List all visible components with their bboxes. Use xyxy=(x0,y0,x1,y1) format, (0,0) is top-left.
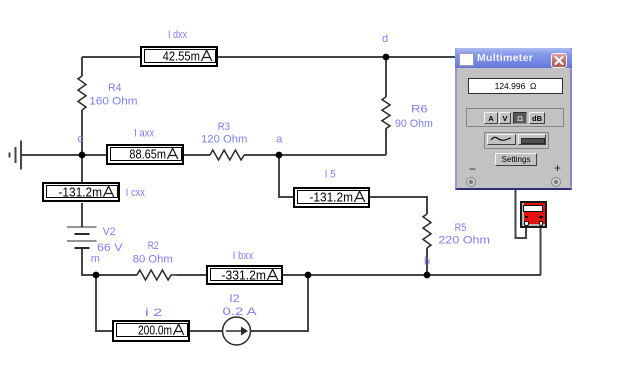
svg-text:i 2: i 2 xyxy=(145,307,162,319)
svg-text:I axx: I axx xyxy=(134,127,154,139)
svg-text:80 Ohm: 80 Ohm xyxy=(133,254,173,266)
svg-text:90 Ohm: 90 Ohm xyxy=(395,118,433,130)
svg-text:R6: R6 xyxy=(411,104,428,116)
svg-text:R2: R2 xyxy=(148,240,159,252)
svg-text:220 Ohm: 220 Ohm xyxy=(438,235,490,247)
svg-text:42.55m: 42.55m xyxy=(163,49,200,64)
svg-text:-131.2m: -131.2m xyxy=(58,185,102,200)
svg-text:200.0m: 200.0m xyxy=(138,323,172,338)
svg-text:d: d xyxy=(382,33,388,45)
svg-text:-331.2m: -331.2m xyxy=(222,268,267,283)
svg-text:R5: R5 xyxy=(455,222,467,234)
svg-text:0.2 A: 0.2 A xyxy=(223,306,258,318)
svg-text:120 Ohm: 120 Ohm xyxy=(201,134,247,146)
svg-text:b: b xyxy=(424,256,430,268)
svg-text:R4: R4 xyxy=(108,82,122,94)
svg-text:I2: I2 xyxy=(229,293,239,305)
svg-text:R3: R3 xyxy=(218,121,230,133)
svg-text:a: a xyxy=(276,134,283,146)
svg-text:V2: V2 xyxy=(103,226,116,238)
svg-text:66 V: 66 V xyxy=(97,242,123,254)
svg-text:160 Ohm: 160 Ohm xyxy=(89,96,137,108)
svg-text:88.65m: 88.65m xyxy=(129,147,166,162)
svg-text:I cxx: I cxx xyxy=(126,187,146,199)
svg-text:-131.2m: -131.2m xyxy=(309,190,353,205)
svg-text:m: m xyxy=(91,253,100,265)
svg-text:I 5: I 5 xyxy=(325,169,336,181)
svg-text:I bxx: I bxx xyxy=(233,250,254,262)
svg-text:c: c xyxy=(78,133,84,145)
svg-text:I dxx: I dxx xyxy=(168,29,187,41)
